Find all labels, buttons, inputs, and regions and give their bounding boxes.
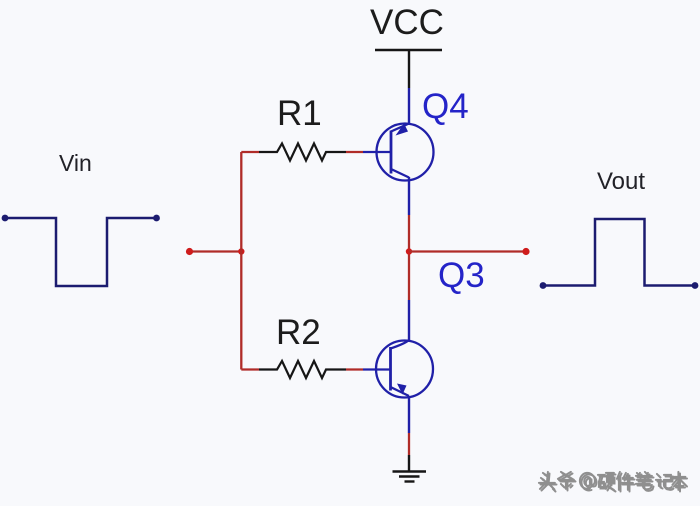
wire (blue) into Q3 collector lead <box>408 300 410 341</box>
transistor Q3 base lead <box>363 368 391 370</box>
transistor Q3 base bar <box>389 347 392 391</box>
wire (black) to ground <box>408 455 410 471</box>
头 <box>541 474 557 492</box>
条 <box>560 474 576 491</box>
wire (red) output node to Q3 collector <box>408 251 410 300</box>
件 <box>619 474 635 492</box>
transistor Q4 emitter arrow (points to base, PNP) <box>396 124 409 136</box>
transistor Q4 base lead <box>363 151 391 153</box>
watermark 头条@硬件笔记本 (drawn as vector strokes: gray shadow + white top) <box>539 472 687 492</box>
Vin waveform <box>5 218 157 286</box>
Vout waveform <box>543 219 695 286</box>
Vout waveform right terminal dot <box>692 282 699 289</box>
svg-text:R1: R1 <box>277 94 322 133</box>
wire VCC bar to Q4 emitter <box>408 51 410 88</box>
Vout waveform left terminal dot <box>540 282 547 289</box>
node output terminal dot <box>522 248 529 255</box>
resistor R2 zigzag <box>259 361 346 378</box>
wire (red) corner to R2 <box>241 368 259 370</box>
node input terminal dot <box>186 248 193 255</box>
transistor Q3 emitter diagonal <box>391 387 410 396</box>
Vin waveform left terminal dot <box>2 215 9 222</box>
记 <box>658 476 674 490</box>
wire (blue) into Q4 emitter lead <box>408 88 410 125</box>
svg-text:Vout: Vout <box>597 168 645 195</box>
@ <box>582 474 597 490</box>
power symbol VCC bar <box>375 49 442 51</box>
svg-text:Q3: Q3 <box>438 256 485 295</box>
transistor Q4 collector diagonal <box>391 169 409 178</box>
wire (red) input stub <box>189 250 241 252</box>
svg-text:Vin: Vin <box>59 150 92 176</box>
transistor Q4 (PNP) circle <box>377 124 434 181</box>
transistor Q4 collector lead <box>408 177 410 215</box>
svg-text:Q4: Q4 <box>422 87 469 126</box>
node input junction dot <box>238 248 244 254</box>
硬 <box>600 475 616 492</box>
transistor Q3 (NPN) circle <box>376 341 433 398</box>
svg-text:VCC: VCC <box>370 3 444 42</box>
wire (red) R1 right lead to Q4 base <box>346 151 363 153</box>
本 <box>673 474 687 492</box>
Vin waveform right terminal dot <box>153 215 160 222</box>
wire (red) Q4 collector to output node <box>408 215 410 251</box>
transistor Q3 emitter arrow (points out, NPN) <box>397 384 407 395</box>
wire (red) output stub <box>409 250 526 252</box>
transistor Q4 base bar <box>390 131 393 174</box>
transistor Q4 emitter diagonal <box>391 124 409 132</box>
wire (red) emitter to ground <box>408 433 410 455</box>
wire (blue) Q3 emitter lead <box>408 396 410 433</box>
resistor R1 zigzag <box>259 144 346 161</box>
笔 <box>638 474 654 491</box>
wire (red) R2 right lead to Q3 base <box>346 368 363 370</box>
transistor Q3 collector diagonal <box>391 340 410 349</box>
ground <box>393 472 427 482</box>
node output junction dot <box>406 248 412 254</box>
wire (red) vertical input branch <box>240 152 242 370</box>
wire (red) corner to R1 <box>241 151 259 153</box>
svg-text:R2: R2 <box>276 313 321 352</box>
